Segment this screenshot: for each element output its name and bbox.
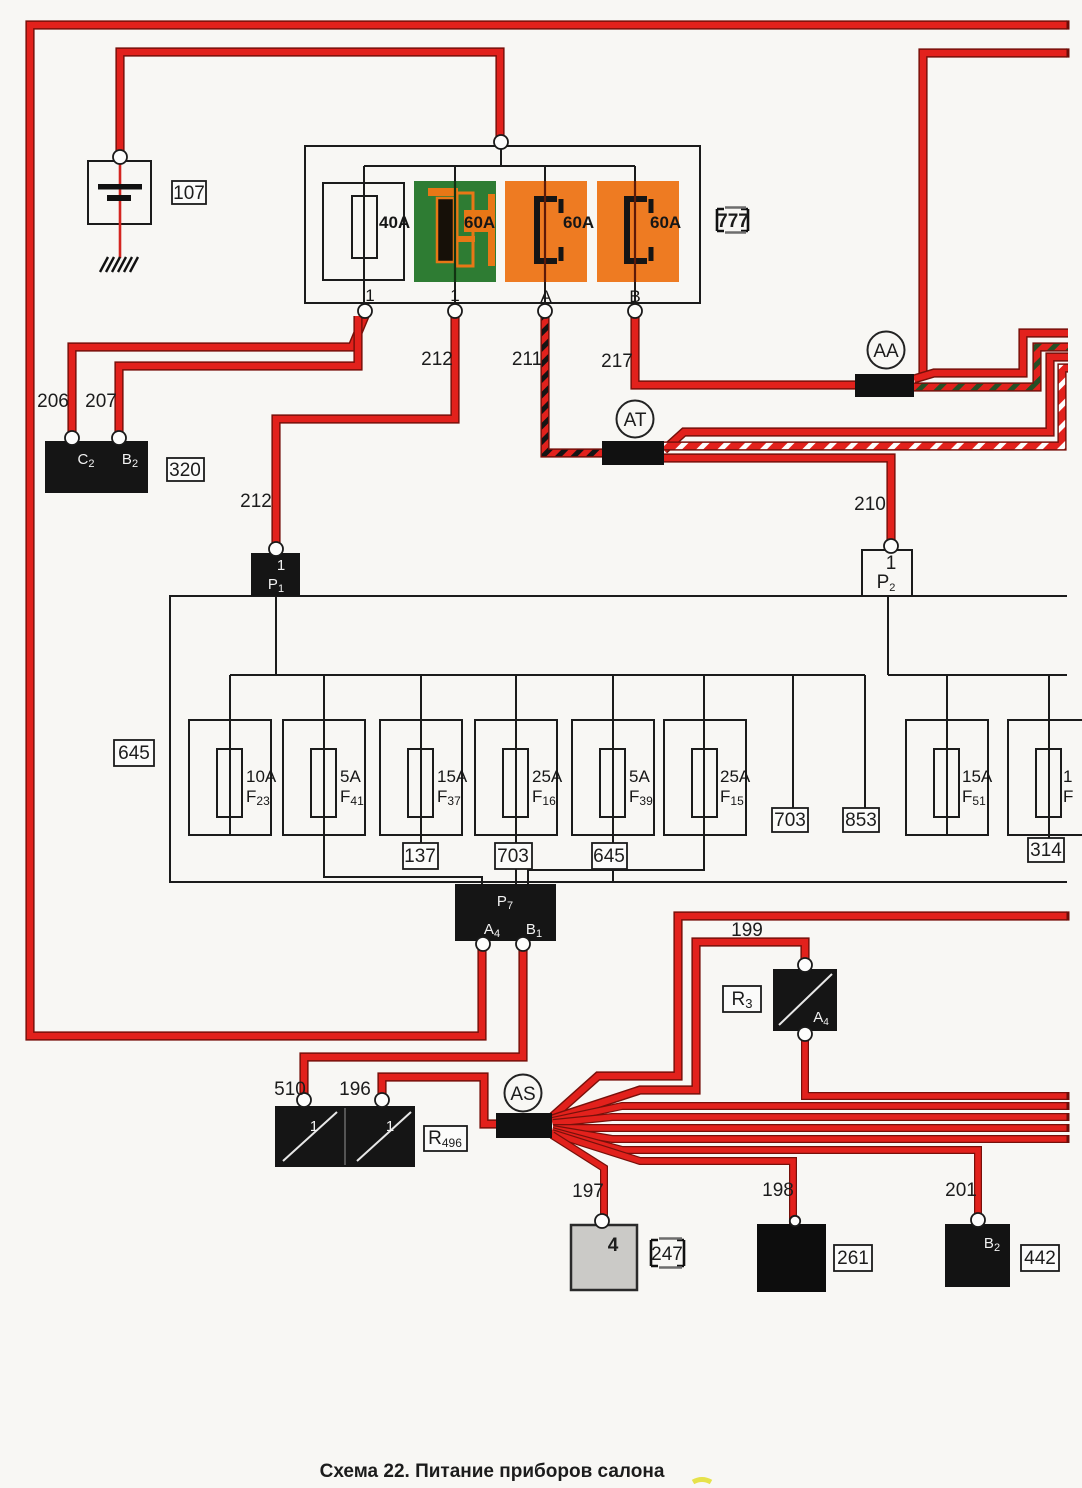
svg-text:F37: F37 (437, 787, 461, 808)
svg-text:207: 207 (85, 391, 117, 412)
ground (100, 257, 138, 272)
wire 217: fuse 60A pin B to connector AA (635, 314, 855, 385)
pin 196 of relay R496 (375, 1093, 389, 1107)
svg-text:5A: 5A (629, 767, 650, 786)
label 703 under F16 (495, 843, 532, 869)
connector AA (circle label) (868, 332, 905, 369)
svg-text:107: 107 (173, 183, 205, 204)
svg-text:Схема 22. Питание приборов сал: Схема 22. Питание приборов салона (320, 1461, 665, 1482)
svg-text:15A: 15A (437, 767, 468, 786)
wire fuse F15 to connector P7 pin B1 (528, 836, 704, 886)
fuse 15A F37 (380, 720, 468, 835)
unit 320 (black box, pins C2 B2) (45, 441, 148, 493)
pin A of fuse 60A (538, 304, 552, 318)
svg-text:1: 1 (450, 286, 459, 305)
pin 1 of connector P2 (884, 539, 898, 553)
pin B2 of unit 442 (971, 1213, 985, 1227)
svg-text:211: 211 (512, 349, 542, 370)
svg-text:25A: 25A (532, 767, 563, 786)
pin C2 of unit 320 (65, 431, 79, 445)
pin 1 of fuse 60A green (448, 304, 462, 318)
fuse 5A F41 (283, 720, 365, 835)
unit 261 (black box) (757, 1224, 826, 1292)
wire: connector AA output (red/green trace) with U-turn at page edge (914, 347, 1068, 387)
wire 201: splice AS to unit 442 pin B2 (552, 1131, 978, 1224)
wire: relay R3 pin A4 output to right (805, 1031, 1067, 1096)
svg-text:25A: 25A (720, 767, 751, 786)
svg-text:1: 1 (886, 553, 897, 574)
label 314 under cut fuse (1028, 838, 1064, 862)
interior fuse box 645 outline (170, 596, 1067, 882)
fuse 10A F23 (189, 720, 277, 835)
svg-text:137: 137 (404, 846, 436, 867)
internal feed bus of box 777 (364, 146, 635, 307)
svg-text:60A: 60A (464, 213, 495, 232)
pin A4 bottom of relay R3 (798, 1027, 812, 1041)
battery / generator unit 107 (88, 161, 151, 258)
fuse 60A (orange, output A) in box 777 (505, 181, 594, 282)
label 320 (167, 458, 204, 481)
wire: splice AS branch 5 (553, 1124, 1067, 1132)
svg-text:212: 212 (421, 349, 453, 370)
wire: connector AA up to page top right (923, 53, 1067, 378)
wire 212: fuse 60A pin 1 to connector P1 (276, 314, 455, 546)
connector AA body (855, 374, 914, 397)
wire end caps at page edge (1067, 20, 1070, 1143)
splice AS body (496, 1113, 552, 1138)
fuse 5A F39 (572, 720, 654, 835)
fuse/relay box 777 outline (305, 146, 700, 303)
unit 442 (black box, pin B2) (945, 1224, 1010, 1287)
wire 197: splice AS to unit 247 (552, 1135, 604, 1225)
label 247 (bracket style) (646, 1235, 689, 1271)
svg-text:F41: F41 (340, 787, 364, 808)
pin 1 of fuse 40A (358, 304, 372, 318)
pin top of relay R3 (798, 958, 812, 972)
label 645 (box designation) (114, 740, 154, 766)
pin B of fuse 60A (628, 304, 642, 318)
unit 247 (grey box, pin 4) (571, 1225, 637, 1290)
svg-text:199: 199 (731, 920, 763, 941)
wire: connector AT output (red/white trace) with U-turn at page edge (664, 368, 1068, 446)
pin: battery 107 top (113, 150, 127, 164)
label 777 (bracket style) (712, 206, 753, 234)
connector AT (circle label) (617, 401, 654, 438)
yellow marker stray mark (693, 1480, 711, 1483)
pin 510 of relay R496 (297, 1093, 311, 1107)
svg-text:210: 210 (854, 494, 886, 515)
svg-text:1: 1 (386, 1118, 394, 1135)
bus bar left (from P1) (230, 596, 1067, 675)
wire: connector P7 pin B1 to relay R496 pin 510 (304, 945, 523, 1101)
wire: splice AS branch 6 (553, 1129, 1067, 1139)
svg-text:703: 703 (497, 846, 529, 867)
label 261 (834, 1245, 872, 1271)
connector P1 (black) (251, 553, 300, 596)
connector P7 (black, pins A4 B1) (455, 884, 556, 941)
fuse 60A (green maxi) in box 777 (414, 181, 496, 282)
svg-text:201: 201 (945, 1180, 977, 1201)
svg-text:510: 510 (274, 1079, 306, 1100)
pin 4 of unit 247 (595, 1214, 609, 1228)
svg-text:314: 314 (1030, 840, 1062, 861)
svg-text:261: 261 (837, 1248, 869, 1269)
label 442 (1021, 1245, 1059, 1271)
pin B2 of unit 320 (112, 431, 126, 445)
pin of unit 261 (790, 1216, 800, 1226)
svg-text:F23: F23 (246, 787, 270, 808)
fuse branch wires inside box 645 (230, 675, 1049, 886)
svg-text:1: 1 (1063, 767, 1072, 786)
svg-text:853: 853 (845, 810, 877, 831)
svg-text:320: 320 (169, 460, 201, 481)
svg-text:F15: F15 (720, 787, 744, 808)
svg-text:60A: 60A (563, 213, 594, 232)
wire: connector AT output (red) with U-turn at page edge (664, 357, 1068, 450)
svg-text:40A: 40A (379, 213, 410, 232)
wire 211 (red/black): fuse 60A pin A to connector AT (545, 314, 602, 453)
fuse 15A (cut by page edge) (1008, 720, 1082, 835)
wire 210: connector AT to connector P2 (664, 458, 891, 550)
svg-text:703: 703 (774, 810, 806, 831)
pin B1 of connector P7 (516, 937, 530, 951)
pin: box 777 supply (494, 135, 508, 149)
svg-text:15A: 15A (962, 767, 993, 786)
svg-text:212: 212 (240, 491, 272, 512)
svg-text:F: F (1063, 787, 1073, 806)
svg-text:645: 645 (118, 743, 150, 764)
svg-text:5A: 5A (340, 767, 361, 786)
fuse 60A (orange, output B) in box 777 (597, 181, 681, 282)
svg-text:1: 1 (365, 286, 374, 305)
wire: connector AA output (red) with U-turn at page edge (914, 333, 1068, 379)
wire: battery 107 to supply pin of box 777 (120, 52, 500, 157)
svg-text:206: 206 (37, 391, 69, 412)
label 107 (172, 181, 206, 204)
wire 199: splice AS branch to relay R3 (552, 942, 805, 1119)
svg-text:247: 247 (651, 1244, 683, 1265)
svg-text:4: 4 (608, 1235, 619, 1256)
fuse 15A F51 (906, 720, 993, 835)
wire 198: splice AS to unit 261 (552, 1133, 793, 1224)
pin 1 of connector P1 (269, 542, 283, 556)
relay R496 (black, pins 510 / 196) (275, 1106, 415, 1167)
svg-text:198: 198 (762, 1180, 794, 1201)
label 853 (right branch) (843, 808, 879, 832)
fuse 25A F15 (664, 720, 751, 835)
svg-text:A: A (540, 287, 552, 306)
relay R3 (black, pin A4) (773, 969, 837, 1031)
splice AS (circle label) (505, 1075, 542, 1112)
wire 207: unit 320 pin B2 to fuse 40A pin 1 (119, 316, 358, 437)
wire 196: relay R496 to splice AS (382, 1077, 496, 1124)
pin 1 / pin 1 / pin A / pin B labels of box 777 (365, 286, 640, 306)
connector AT body (602, 441, 664, 465)
svg-text:196: 196 (339, 1079, 371, 1100)
fuse 40A (white) in box 777 (323, 183, 410, 280)
label R496 (424, 1126, 467, 1151)
svg-text:1: 1 (277, 557, 285, 574)
label 137 under F37 (403, 843, 438, 869)
svg-text:442: 442 (1024, 1248, 1056, 1269)
svg-text:60A: 60A (650, 213, 681, 232)
pin circles (65, 135, 985, 1228)
wire: splice AS branch 4 (553, 1117, 1067, 1123)
svg-text:1: 1 (310, 1118, 318, 1135)
svg-text:10A: 10A (246, 767, 277, 786)
svg-text:645: 645 (593, 846, 625, 867)
fuse 25A F16 (475, 720, 563, 835)
label R3 (723, 986, 761, 1012)
wire fuse F41 to connector P7 pin A4 (324, 835, 482, 886)
svg-text:777: 777 (717, 211, 749, 232)
svg-text:AA: AA (873, 341, 899, 362)
wire: splice AS branch to upper feed line (552, 916, 1067, 1117)
svg-text:197: 197 (572, 1181, 604, 1202)
connector P2 (white) (862, 550, 912, 596)
wire: battery + via P7 pin A4, left border and page top (30, 25, 1067, 1036)
svg-text:F39: F39 (629, 787, 653, 808)
svg-text:AS: AS (510, 1084, 535, 1105)
svg-text:AT: AT (624, 410, 647, 431)
label 645 under F39 (592, 843, 627, 869)
pin A4 of connector P7 (476, 937, 490, 951)
svg-text:F51: F51 (962, 787, 986, 808)
wire 206: unit 320 pin C2 to fuse 40A pin 1 (72, 316, 365, 437)
label 703 (right branch) (772, 808, 808, 832)
svg-text:217: 217 (601, 351, 633, 372)
svg-text:F16: F16 (532, 787, 556, 808)
wire: splice AS branch 3 (552, 1106, 1067, 1121)
